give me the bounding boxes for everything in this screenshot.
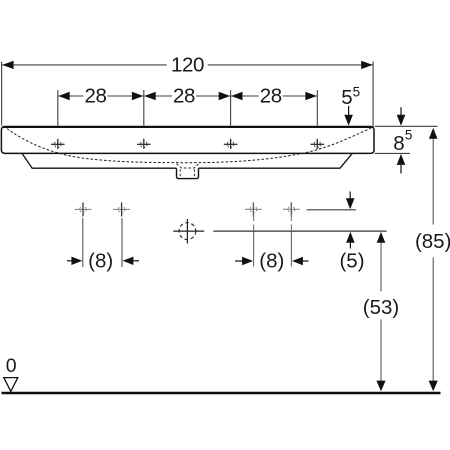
svg-text:5: 5 (341, 86, 352, 109)
dimension (8) pair 1 (83, 218, 122, 267)
svg-text:28: 28 (260, 84, 282, 107)
svg-text:(8): (8) (88, 250, 113, 273)
svg-text:5: 5 (353, 85, 361, 100)
svg-text:28: 28 (84, 84, 106, 107)
svg-text:(85): (85) (415, 230, 450, 253)
floor line (2, 392, 441, 394)
dimension 120 (2, 62, 374, 127)
dimension (85) (432, 138, 434, 225)
bowl apron below rim (22, 154, 352, 169)
dimension 8.5 (right of basin) (375, 125, 438, 127)
svg-text:(8): (8) (259, 250, 284, 273)
drain trap box (177, 168, 199, 178)
svg-text:28: 28 (173, 84, 195, 107)
svg-text:0: 0 (6, 355, 17, 377)
svg-text:(53): (53) (363, 296, 399, 319)
faucet supply marks pair 2 (245, 208, 300, 210)
washbasin rim (front view slab) (1, 127, 374, 154)
dashed interior bowl curve (7, 128, 371, 163)
drain outlet symbol (179, 223, 196, 240)
dimension (8) pair 2, dashed extension lines (254, 215, 292, 231)
svg-text:5: 5 (405, 128, 413, 143)
dimension (5) (349, 192, 351, 201)
svg-text:120: 120 (171, 53, 204, 76)
reference line at supply level (307, 209, 357, 211)
dimension 28 (x3) (58, 90, 318, 126)
svg-text:(5): (5) (339, 250, 364, 273)
svg-text:8: 8 (393, 132, 404, 155)
tap hole marks on rim (4x) (51, 139, 324, 149)
faucet supply marks pair 1 (75, 208, 130, 210)
reference line at drain level (213, 230, 386, 232)
dimension (53) (380, 242, 382, 292)
